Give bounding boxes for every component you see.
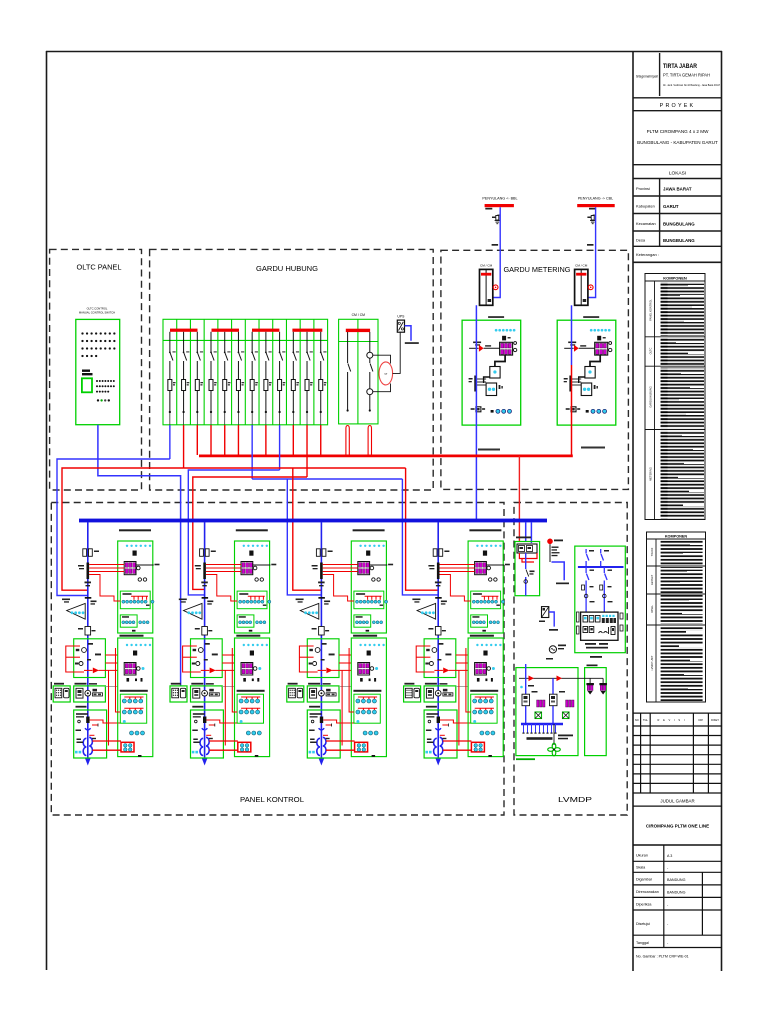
svg-text:Kabupaten: Kabupaten: [636, 204, 655, 209]
svg-text:LOKASI: LOKASI: [669, 171, 686, 177]
svg-text:DIKET.: DIKET.: [711, 718, 719, 722]
main 20kV red tie bus: [199, 455, 573, 458]
unit 4: [404, 522, 510, 766]
revision table: [633, 713, 722, 793]
svg-text:BUNGBULANG - KABUPATEN GARUT: BUNGBULANG - KABUPATEN GARUT: [637, 140, 718, 145]
inverter box: [542, 607, 549, 618]
svg-text:BANDUNG: BANDUNG: [667, 890, 686, 894]
SECTION BOXES: [50, 249, 629, 815]
svg-text:LVMDP UNIT: LVMDP UNIT: [651, 655, 654, 670]
svg-text:GARDU HUBUNG: GARDU HUBUNG: [649, 386, 653, 407]
bus drops to LVMDP: [525, 522, 527, 542]
cable size labels: [478, 449, 500, 451]
svg-text:Skala: Skala: [636, 866, 646, 870]
OLTC panel cabinet: [76, 307, 181, 686]
bottom data rows: [633, 845, 722, 948]
svg-text:GENSET: GENSET: [651, 574, 654, 585]
svg-text:VT: VT: [384, 374, 388, 376]
wire unit3 control (blue): [287, 479, 321, 595]
unit 1: [53, 522, 159, 766]
svg-text:Ukuran: Ukuran: [636, 854, 648, 858]
metering unit 1: [462, 264, 521, 426]
svg-text:-: -: [667, 922, 669, 926]
svg-text:-: -: [667, 866, 669, 870]
wire cell7 stub: [251, 425, 253, 479]
wire unit1 control (blue): [57, 459, 170, 596]
svg-text:KOMPONEN: KOMPONEN: [665, 535, 688, 539]
svg-text:PENYULANG <- BBL: PENYULANG <- BBL: [482, 196, 517, 200]
svg-text:UPS: UPS: [397, 315, 405, 319]
breaker right with CTs: [367, 332, 373, 411]
wire cell8 stub: [265, 425, 267, 455]
wire cell5 stub: [224, 425, 226, 455]
svg-text:BANDUNG: BANDUNG: [667, 878, 686, 882]
svg-text:OLTC CONTROL: OLTC CONTROL: [87, 307, 108, 311]
lv distribution green box bottom: [516, 668, 578, 756]
svg-text:MANUAL CONTROL SWITCH: MANUAL CONTROL SWITCH: [79, 311, 115, 315]
busbar sections (red): [170, 329, 322, 332]
lvmdp outgoing small green box: [585, 668, 607, 756]
lokasi row: [633, 178, 722, 180]
wire cell6 stub: [237, 425, 239, 455]
disconnect switch left: [348, 332, 351, 411]
svg-text:Direncanakan: Direncanakan: [636, 890, 659, 894]
svg-text:KOMPONEN: KOMPONEN: [663, 276, 687, 281]
svg-text:Diperiksa: Diperiksa: [636, 903, 652, 907]
cubicle grid: [163, 319, 328, 425]
wire unit1 power (red): [62, 468, 184, 590]
wire cell2 stub: [183, 425, 185, 468]
svg-text:PROYEK: PROYEK: [660, 103, 696, 109]
svg-text:Tanggal: Tanggal: [636, 941, 649, 945]
svg-text:BUNGBULANG: BUNGBULANG: [663, 222, 695, 227]
wire cell11 stub: [306, 425, 308, 477]
svg-text:PANEL: PANEL: [651, 604, 654, 613]
breaker cells 1-12: [168, 332, 176, 425]
wire cell4 stub: [210, 425, 212, 455]
svg-text:GARDU METERING: GARDU METERING: [504, 265, 571, 274]
unit 2: [170, 522, 276, 766]
svg-text:METERING: METERING: [649, 467, 653, 481]
svg-text:TGL: TGL: [643, 718, 649, 722]
PANEL KONTROL box: [51, 503, 504, 816]
logo cell: [633, 53, 722, 98]
wire red tie horizontal: [184, 467, 406, 469]
svg-text:GARUT: GARUT: [663, 204, 679, 209]
PENYULANG feeder CBL: [577, 196, 615, 297]
distribution panel black box: [581, 612, 618, 640]
UPS box: [397, 315, 419, 344]
svg-text:OLTC PANEL: OLTC PANEL: [77, 263, 122, 272]
OLTC PANEL box: [50, 249, 142, 490]
switchgear outgoing wires band: [57, 425, 438, 596]
KOMPONEN table 2: [647, 532, 706, 702]
svg-text:Keterangan :: Keterangan :: [636, 252, 659, 257]
cable loops below coupling cell: [346, 426, 372, 456]
svg-text:PLTM CIROMPANG 4 x 2 MW: PLTM CIROMPANG 4 x 2 MW: [647, 129, 710, 134]
svg-text:tirtagemahripah: tirtagemahripah: [636, 75, 658, 79]
svg-text:Desa: Desa: [636, 238, 646, 243]
judul gambar: [633, 805, 722, 807]
wire unit2 control (blue): [188, 470, 279, 595]
svg-text:No. Gambar : PLTM CRP-: No. Gambar : PLTM CRP-WE-01: [636, 955, 689, 959]
indicator lamp grid: [81, 332, 115, 357]
svg-text:TIRTA JABAR: TIRTA JABAR: [663, 63, 697, 70]
svg-text:CIROMPANG PLTM ONE LINE: CIROMPANG PLTM ONE LINE: [646, 824, 709, 829]
proyek row: [633, 110, 722, 112]
through wire metering 1 (blue): [475, 305, 477, 521]
GARDU HUBUNG box: [150, 249, 434, 490]
svg-text:PANEL KONTROL: PANEL KONTROL: [649, 299, 653, 321]
metering unit 2: [557, 264, 616, 426]
through wire metering 2 (blue top / red bottom): [571, 305, 573, 365]
LVMDP: [515, 537, 625, 761]
svg-text:-: -: [667, 903, 669, 907]
wire blue tie horizontal: [252, 478, 402, 480]
wire cell12 stub: [320, 425, 322, 455]
svg-text:-: -: [667, 941, 669, 945]
wire cell1 stub: [169, 425, 171, 459]
wire unit2 power (red): [193, 477, 307, 589]
svg-text:PT. TIRTA GEMAH RIPAH: PT. TIRTA GEMAH RIPAH: [663, 73, 710, 79]
svg-text:R E V I S I: R E V I S I: [657, 718, 686, 722]
lokasi table: [633, 179, 722, 247]
svg-text:DIP.: DIP.: [699, 718, 704, 722]
oltc selector switch: [82, 378, 92, 392]
wire cell3 stub: [196, 425, 198, 455]
TITLEBLOCK: [633, 53, 722, 262]
svg-text:LVMDP: LVMDP: [558, 797, 592, 804]
svg-text:Jln. Jend. Sudirman No.10 Band: Jln. Jend. Sudirman No.10 Bandung - Jawa…: [663, 84, 721, 87]
exhaust fan: [548, 743, 561, 756]
LVMDP box: [514, 503, 627, 816]
red drop to LVMDP: [518, 456, 520, 542]
keterangan row: [633, 261, 722, 263]
svg-text:CM / CM: CM / CM: [352, 313, 366, 317]
wire unit3 power (red): [293, 468, 322, 590]
svg-text:Disetujui: Disetujui: [636, 922, 650, 926]
unit 3: [287, 522, 393, 766]
svg-text:NO: NO: [635, 718, 639, 722]
PENYULANG feeder BBL: [482, 196, 517, 297]
svg-text:PENYULANG -> CBL: PENYULANG -> CBL: [578, 196, 613, 200]
svg-text:TRAFO: TRAFO: [651, 548, 654, 557]
genset incomer red dot: [547, 539, 553, 545]
capacitor / outgoing green box right: [575, 546, 626, 653]
wire oltc blue down: [98, 425, 181, 686]
genset motor circle: [549, 646, 556, 653]
svg-text:A 3: A 3: [667, 854, 672, 858]
svg-text:BUNGBULANG: BUNGBULANG: [663, 238, 695, 243]
svg-text:OLTC: OLTC: [649, 348, 653, 355]
svg-text:PANEL KONTROL: PANEL KONTROL: [240, 797, 304, 804]
svg-text:JAWA BARAT: JAWA BARAT: [663, 187, 692, 192]
wire unit4 control (blue): [402, 479, 438, 595]
pilot lamps: [97, 399, 99, 401]
incoming green box: [515, 542, 540, 596]
wire unit4 power (red): [406, 468, 439, 590]
svg-text:GARDU HUBUNG: GARDU HUBUNG: [256, 264, 318, 273]
svg-text:JUDUL GAMBAR: JUDUL GAMBAR: [660, 798, 694, 803]
metering transformer circle: [379, 362, 393, 385]
lv bus: [521, 723, 563, 726]
svg-text:Digambar: Digambar: [636, 878, 653, 882]
wire cell10 stub: [292, 425, 294, 455]
GARDU HUBUNG switchgear lineup: [163, 319, 328, 425]
wire cell9 stub: [279, 425, 281, 470]
project name cell: [633, 164, 722, 166]
coupling cell CM/CM: [339, 313, 401, 424]
svg-text:Kecamatan: Kecamatan: [636, 221, 656, 226]
svg-text:Provinsi: Provinsi: [636, 186, 650, 191]
LV main bus (thick blue): [79, 519, 547, 523]
GARDU METERING box: [441, 250, 629, 489]
KOMPONEN table 1: [645, 274, 705, 520]
